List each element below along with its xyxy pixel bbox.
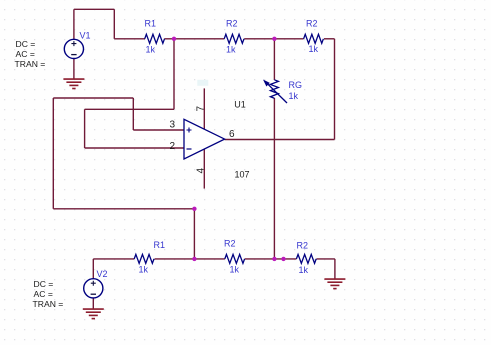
wire top row segment 3 xyxy=(244,38,303,40)
wire bottom row segment 1 xyxy=(93,258,134,260)
wire top row segment 4 xyxy=(324,38,335,40)
svg-text:2: 2 xyxy=(170,141,176,152)
wire V1 ground stem xyxy=(73,59,75,80)
V2 minus mark xyxy=(91,293,96,295)
V1 plus mark xyxy=(71,41,76,46)
svg-text:1k: 1k xyxy=(309,44,319,54)
svg-text:RG: RG xyxy=(289,80,303,90)
svg-text:R2: R2 xyxy=(224,239,236,249)
svg-text:1k: 1k xyxy=(289,91,299,101)
resistor R1 top xyxy=(145,34,165,43)
svg-text:AC =: AC = xyxy=(34,289,53,299)
wire to pin2 vertical xyxy=(84,109,86,148)
svg-text:107: 107 xyxy=(235,169,250,179)
node D right junction xyxy=(281,257,285,261)
svg-text:R2: R2 xyxy=(306,19,318,29)
svg-text:1k: 1k xyxy=(299,265,309,275)
svg-text:TRAN =: TRAN = xyxy=(33,299,64,309)
voltage source V1 body xyxy=(64,39,83,58)
wire top row segment 1 xyxy=(114,38,145,40)
ground below V1 xyxy=(63,78,84,80)
wire top jog vertical xyxy=(113,9,115,39)
svg-text:3: 3 xyxy=(170,120,176,131)
svg-text:DC =: DC = xyxy=(34,279,54,289)
wire to pin3 horizontal xyxy=(133,129,184,131)
node C junction xyxy=(192,257,196,261)
wire RG bottom lead xyxy=(273,98,275,259)
svg-text:R2: R2 xyxy=(297,241,309,251)
svg-text:DC =: DC = xyxy=(16,39,36,49)
ground below V2 xyxy=(83,308,104,310)
svg-text:6: 6 xyxy=(229,129,235,140)
node B junction xyxy=(272,37,276,41)
wire bottom row segment 3 xyxy=(245,258,297,260)
wire left long vertical xyxy=(52,98,54,209)
resistor R2 bottom right xyxy=(296,254,316,263)
wire bottom row segment 4 xyxy=(316,258,335,260)
resistor RG body xyxy=(270,80,278,98)
wire to pin3 top horizontal xyxy=(53,97,133,99)
op-amp U1 minus mark xyxy=(187,148,192,150)
wire feedback horizontal xyxy=(53,208,194,210)
wire node C vertical xyxy=(193,209,195,259)
wire V2 riser xyxy=(92,259,94,279)
U1 pin 4 stub xyxy=(203,149,205,189)
svg-text:U1: U1 xyxy=(234,99,246,109)
wire V1 top riser xyxy=(73,9,75,39)
op-amp U1 plus mark xyxy=(187,128,192,133)
node D junction xyxy=(272,257,276,261)
U1 pin 7 unconnected marker xyxy=(197,80,208,86)
svg-text:4: 4 xyxy=(195,168,206,174)
svg-text:R1: R1 xyxy=(154,240,166,250)
wire to pin2 upper horizontal xyxy=(85,108,174,110)
resistor R2 top middle xyxy=(224,34,244,43)
svg-text:1k: 1k xyxy=(226,45,236,55)
wire node A vertical xyxy=(173,39,175,110)
wire V2 ground stem xyxy=(92,298,94,309)
feedback corner junction xyxy=(192,207,196,211)
wire bottom row segment 2 xyxy=(155,258,225,260)
svg-text:1k: 1k xyxy=(230,265,240,275)
svg-text:TRAN =: TRAN = xyxy=(15,59,46,69)
svg-text:R2: R2 xyxy=(226,19,238,29)
wire output horizontal xyxy=(225,139,335,141)
svg-text:V2: V2 xyxy=(97,269,108,279)
wire output ground stem xyxy=(334,259,336,279)
U1 pin 7 stub xyxy=(203,88,205,129)
svg-text:R1: R1 xyxy=(145,19,157,29)
resistor RG arrow xyxy=(266,82,287,103)
node A junction xyxy=(172,37,176,41)
resistor R1 bottom xyxy=(134,254,154,263)
wire top row segment 2 xyxy=(164,38,224,40)
resistor R2 top right xyxy=(304,34,324,43)
svg-text:1k: 1k xyxy=(139,265,149,275)
V2 plus mark xyxy=(91,281,96,286)
svg-text:7: 7 xyxy=(195,106,206,112)
svg-text:1k: 1k xyxy=(146,45,156,55)
svg-text:AC =: AC = xyxy=(16,49,35,59)
ground bottom right xyxy=(324,278,345,280)
wire to pin3 vertical xyxy=(132,98,134,130)
wire top jog horizontal xyxy=(74,8,114,10)
resistor R2 bottom middle xyxy=(225,254,245,263)
voltage source V2 body xyxy=(84,279,103,298)
svg-text:V1: V1 xyxy=(80,30,91,40)
V1 minus mark xyxy=(71,54,76,56)
wire to pin2 horizontal xyxy=(85,147,184,149)
wire RG top lead xyxy=(273,39,275,80)
op-amp U1 body xyxy=(184,119,225,159)
wire right vertical to output xyxy=(334,39,336,140)
